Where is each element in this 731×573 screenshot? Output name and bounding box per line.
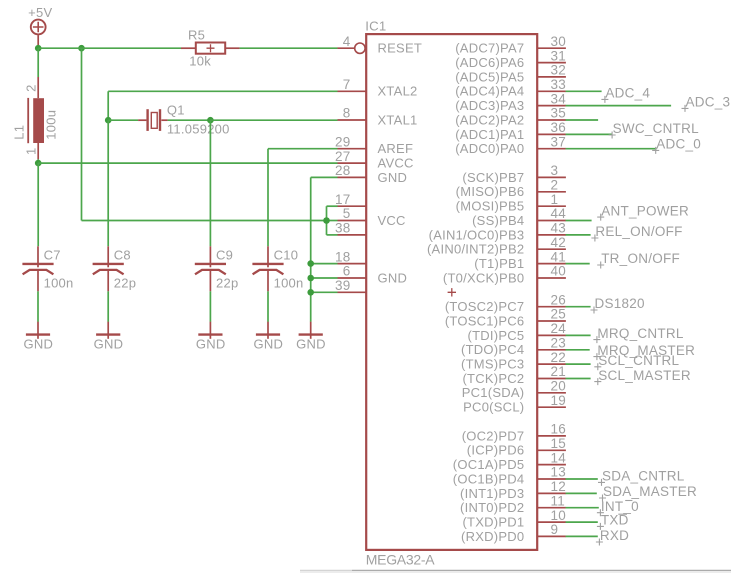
wire AVCC to IC1 pin 27 (38, 162, 337, 164)
svg-text:9: 9 (551, 522, 559, 537)
svg-text:(T1)PB1: (T1)PB1 (474, 256, 524, 271)
svg-text:2: 2 (551, 178, 559, 193)
IC1 origin cross (448, 288, 456, 296)
svg-text:12: 12 (551, 479, 567, 494)
svg-text:36: 36 (551, 120, 567, 135)
svg-text:3: 3 (551, 163, 559, 178)
wire GND bracket to pin 39 (311, 291, 338, 293)
wire AREF vertical down to C10 (267, 149, 269, 247)
svg-text:MRQ_CNTRL: MRQ_CNTRL (597, 326, 683, 341)
svg-text:10: 10 (551, 508, 567, 523)
node INT_0 label (597, 499, 639, 516)
pin 33 (ADC4)PA4 (455, 77, 566, 99)
svg-text:IC1: IC1 (365, 18, 386, 33)
wire net unlabeled from pin row 5 (566, 119, 599, 121)
pin 21 (TCK)PC2 (462, 364, 566, 386)
svg-text:AVCC: AVCC (378, 156, 414, 171)
svg-text:19: 19 (551, 393, 567, 408)
svg-text:100n: 100n (274, 275, 304, 290)
svg-text:AREF: AREF (378, 141, 414, 156)
svg-text:PC0(SCL): PC0(SCL) (463, 400, 524, 415)
node TR_ON/OFF label (597, 251, 680, 268)
node TXD label (597, 513, 629, 530)
svg-text:GND: GND (23, 337, 53, 352)
junction XTAL2 / Q1 / C8 (105, 117, 112, 124)
svg-text:(ADC0)PA0: (ADC0)PA0 (455, 141, 524, 156)
wire net MRQ_MASTER from pin row 21 (566, 349, 590, 351)
wire VCC horizontal to IC1 (82, 220, 327, 222)
L1 pin 2 label (23, 84, 38, 91)
svg-text:(MOSI)PB5: (MOSI)PB5 (456, 199, 525, 214)
svg-text:SDA_CNTRL: SDA_CNTRL (602, 469, 685, 484)
svg-text:44: 44 (551, 206, 567, 221)
pin 25 (TOSC1)PC6 (445, 307, 566, 329)
wire net ADC_4 from pin row 3 (566, 90, 602, 92)
svg-text:(MISO)PB6: (MISO)PB6 (456, 184, 525, 199)
svg-text:MEGA32-A: MEGA32-A (366, 552, 435, 568)
pin 38 IC1-left (335, 221, 366, 236)
svg-text:GND: GND (378, 270, 408, 285)
svg-text:18: 18 (335, 249, 351, 264)
junction VCC branch on +5V rail (78, 45, 85, 52)
svg-text:(OC2)PD7: (OC2)PD7 (462, 428, 525, 443)
svg-text:27: 27 (335, 149, 351, 164)
junction GND bracket pin 6 (307, 275, 314, 282)
pin 40 (T0/XCK)PB0 (443, 264, 566, 286)
svg-text:8: 8 (343, 106, 351, 121)
svg-text:(TOSC1)PC6: (TOSC1)PC6 (445, 313, 525, 328)
pin 42 (AIN0/INT2)PB2 (427, 235, 566, 257)
node RXD label (596, 528, 629, 545)
svg-text:C10: C10 (274, 248, 299, 263)
pin 13 (OC1B)PD4 (453, 465, 566, 487)
node MRQ_CNTRL label (593, 326, 683, 343)
wire net SDA_CNTRL from pin row 30 (566, 478, 598, 480)
svg-text:26: 26 (551, 292, 567, 307)
pin 39 IC1-left (335, 278, 366, 293)
svg-text:(TOSC2)PC7: (TOSC2)PC7 (445, 299, 525, 314)
wire GND bracket vertical (310, 177, 312, 322)
svg-text:(TCK)PC2: (TCK)PC2 (462, 371, 524, 386)
pin 32 (ADC5)PA5 (455, 63, 566, 85)
wire VCC vertical drop at x=81.5 (81, 48, 83, 220)
svg-text:22: 22 (551, 350, 567, 365)
svg-text:GND: GND (94, 337, 124, 352)
node SDA_MASTER label (599, 484, 697, 501)
pin 7 XTAL2 (338, 77, 418, 99)
svg-text:(ADC6)PA6: (ADC6)PA6 (455, 55, 524, 70)
junction VCC bracket pin 5 (323, 217, 330, 224)
svg-text:32: 32 (551, 63, 567, 78)
junction GND bracket pin 39 (307, 289, 314, 296)
pin 12 (INT1)PD3 (460, 479, 566, 501)
svg-text:(ADC7)PA7: (ADC7)PA7 (455, 41, 524, 56)
wire capacitor C8 to ground (107, 291, 109, 322)
wire VCC bracket to pin 38 (327, 234, 338, 236)
svg-text:GND: GND (378, 170, 408, 185)
wire into capacitor capacitor C8 (107, 246, 109, 267)
wire net DS1820 from pin row 18 (566, 306, 591, 308)
svg-text:(T0/XCK)PB0: (T0/XCK)PB0 (443, 270, 525, 285)
node ADC_3 label (682, 95, 731, 112)
pin 44 (SS)PB4 (472, 206, 566, 228)
svg-text:23: 23 (551, 336, 567, 351)
svg-text:(TDI)PC5: (TDI)PC5 (468, 328, 525, 343)
pin 8 XTAL1 (338, 106, 418, 128)
svg-text:16: 16 (551, 422, 567, 437)
svg-text:4: 4 (343, 34, 351, 49)
junction L1 / AVCC / C7 (35, 160, 42, 167)
pin 36 (ADC1)PA1 (455, 120, 566, 142)
svg-text:(ADC2)PA2: (ADC2)PA2 (455, 112, 524, 127)
pin 31 (ADC6)PA6 (455, 48, 566, 70)
wire GND bracket to pin 6 (311, 277, 338, 279)
svg-text:R5: R5 (188, 27, 205, 42)
svg-text:SDA_MASTER: SDA_MASTER (603, 484, 697, 499)
wire into capacitor capacitor C9 (209, 246, 211, 267)
svg-text:(SCK)PB7: (SCK)PB7 (462, 170, 524, 185)
node ADC_0 label (652, 137, 701, 154)
pin 43 (AIN1/OC0)PB3 (429, 221, 566, 243)
L1 name label (12, 125, 27, 140)
junction GND bracket pin 18 (307, 260, 314, 267)
resistor R5 (181, 43, 240, 54)
svg-text:C9: C9 (216, 248, 233, 263)
svg-text:24: 24 (551, 321, 567, 336)
svg-text:31: 31 (551, 48, 567, 63)
capacitor capacitor C10 (252, 264, 283, 291)
pin 5 VCC (338, 206, 406, 228)
wire XTAL1 to pin 8 (210, 119, 337, 121)
wire capacitor C7 to ground (37, 291, 39, 322)
junction +5V / L1 / rail (35, 45, 42, 52)
svg-text:+5V: +5V (28, 5, 52, 20)
svg-text:(ADC5)PA5: (ADC5)PA5 (455, 69, 524, 84)
ground under C7 (23, 322, 53, 352)
svg-text:(OC1B)PD4: (OC1B)PD4 (453, 471, 525, 486)
node SCL_CNTRL label (594, 353, 679, 370)
wire AVCC junction down to C7 (37, 163, 39, 246)
svg-text:ADC_4: ADC_4 (605, 86, 650, 101)
svg-text:GND: GND (253, 337, 283, 352)
pin 1 (MOSI)PB5 (456, 192, 566, 214)
wire +5V rail to R5 (38, 47, 181, 49)
node DS1820 label (591, 296, 645, 313)
svg-text:Q1: Q1 (167, 102, 185, 117)
ground under C10 (253, 322, 283, 352)
ground under GND bracket (296, 322, 326, 352)
pin 14 (OC1A)PD5 (453, 450, 566, 472)
wire capacitor C10 to ground (267, 291, 269, 322)
crystal Q1 (138, 109, 168, 131)
svg-text:XTAL1: XTAL1 (378, 112, 418, 127)
pin 24 (TDI)PC5 (468, 321, 567, 343)
wire net ANT_POWER from pin row 12 (566, 220, 592, 222)
svg-text:(ADC3)PA3: (ADC3)PA3 (455, 98, 524, 113)
svg-text:11.059200: 11.059200 (167, 121, 230, 136)
svg-text:14: 14 (551, 450, 567, 465)
svg-text:XTAL2: XTAL2 (378, 84, 418, 99)
pin 20 PC1(SDA) (462, 379, 566, 401)
svg-text:REL_ON/OFF: REL_ON/OFF (595, 224, 682, 239)
wire VCC bracket to pin 17 (327, 205, 338, 207)
svg-text:20: 20 (551, 379, 567, 394)
wire XTAL2 junction down to C8 (107, 120, 109, 246)
svg-text:(AIN0/INT2)PB2: (AIN0/INT2)PB2 (427, 242, 524, 257)
pin 23 (TDO)PC4 (461, 336, 566, 358)
svg-text:(ADC4)PA4: (ADC4)PA4 (455, 84, 524, 99)
svg-text:C8: C8 (114, 248, 131, 263)
capacitor capacitor C8 (93, 264, 124, 291)
L1 pin 1 label (23, 148, 38, 155)
svg-text:(INT1)PD3: (INT1)PD3 (460, 486, 524, 501)
svg-text:ANT_POWER: ANT_POWER (601, 203, 689, 218)
svg-text:GND: GND (196, 337, 226, 352)
svg-text:42: 42 (551, 235, 567, 250)
pin 30 (ADC7)PA7 (455, 34, 566, 56)
ground under C9 (196, 322, 226, 352)
wire into capacitor capacitor C7 (37, 246, 39, 267)
wire net TXD from pin row 33 (566, 521, 598, 523)
wire XTAL2 from pin 7 (108, 90, 337, 92)
svg-text:2: 2 (23, 84, 38, 91)
wire net ADC_3 from pin row 4 (566, 105, 672, 107)
capacitor capacitor C9 (195, 264, 226, 291)
+5V supply symbol (28, 5, 52, 48)
wire L1 to AVCC junction (37, 159, 39, 163)
node SCL_MASTER label (594, 368, 691, 385)
svg-text:35: 35 (551, 106, 567, 121)
node SDA_CNTRL label (598, 469, 685, 486)
wire net ADC_0 from pin row 7 (566, 148, 657, 150)
wire net TR_ON/OFF from pin row 15 (566, 263, 590, 265)
svg-text:DS1820: DS1820 (595, 296, 645, 311)
pin 2 (MISO)PB6 (456, 178, 566, 200)
wire net RXD from pin row 34 (566, 535, 598, 537)
wire GND bracket to pin 18 (311, 263, 338, 265)
pin 6 GND (338, 264, 408, 286)
svg-text:40: 40 (551, 264, 567, 279)
pin 34 (ADC3)PA3 (455, 91, 566, 113)
pin 16 (OC2)PD7 (462, 422, 566, 444)
svg-text:SWC_CNTRL: SWC_CNTRL (613, 121, 699, 136)
pin 35 (ADC2)PA2 (455, 106, 566, 128)
pin 15 (ICP)PD6 (467, 436, 566, 458)
svg-text:17: 17 (335, 192, 351, 207)
wire GND from pin 28 (311, 176, 338, 178)
svg-text:11: 11 (551, 493, 566, 508)
wire VCC bracket to pin 5 (327, 220, 338, 222)
pin 11 (INT0)PD2 (460, 493, 566, 515)
svg-text:RESET: RESET (378, 41, 423, 56)
L1 value label 100u (43, 110, 58, 140)
wire net SCL_CNTRL from pin row 22 (566, 363, 591, 365)
node SWC_CNTRL label (609, 121, 699, 138)
svg-text:(OC1A)PD5: (OC1A)PD5 (453, 457, 525, 472)
svg-text:SCL_CNTRL: SCL_CNTRL (598, 353, 679, 368)
svg-text:100n: 100n (44, 275, 74, 290)
wire capacitor C9 to ground (209, 291, 211, 322)
node MRQ_MASTER label (593, 343, 695, 360)
wire XTAL2 vertical down to Q1 (107, 91, 109, 120)
svg-text:34: 34 (551, 91, 567, 106)
inductor L1 (28, 77, 44, 159)
svg-text:30: 30 (551, 34, 567, 49)
svg-text:1: 1 (551, 192, 559, 207)
wire Q1 right to XTAL1 junction (168, 119, 211, 121)
pin 18 IC1-left (335, 249, 366, 264)
pin 41 (T1)PB1 (474, 249, 566, 271)
node ANT_POWER label (597, 203, 689, 220)
pin 29 AREF (335, 134, 413, 156)
svg-text:10k: 10k (189, 54, 211, 69)
node REL_ON/OFF label (591, 224, 682, 241)
wire VCC bracket vertical pins 17/5/38 (326, 206, 328, 235)
wire junction to Q1 left (108, 119, 138, 121)
svg-text:33: 33 (551, 77, 567, 92)
svg-text:L1: L1 (12, 125, 27, 140)
svg-text:1: 1 (23, 148, 38, 155)
svg-text:39: 39 (335, 278, 351, 293)
svg-text:ADC_0: ADC_0 (656, 137, 701, 152)
svg-text:38: 38 (335, 221, 351, 236)
svg-text:(TDO)PC4: (TDO)PC4 (461, 342, 524, 357)
svg-text:29: 29 (335, 134, 351, 149)
svg-text:5: 5 (343, 206, 351, 221)
wire +5V into L1 (37, 48, 39, 77)
svg-text:7: 7 (343, 77, 351, 92)
svg-text:21: 21 (551, 364, 567, 379)
pin 37 (ADC0)PA0 (455, 134, 566, 156)
svg-text:PC1(SDA): PC1(SDA) (462, 385, 525, 400)
wire net MRQ_CNTRL from pin row 20 (566, 334, 591, 336)
svg-text:25: 25 (551, 307, 567, 322)
pin 28 GND (335, 163, 407, 185)
svg-text:C7: C7 (44, 248, 61, 263)
svg-text:22p: 22p (114, 275, 136, 290)
svg-text:SCL_MASTER: SCL_MASTER (598, 368, 691, 383)
wire XTAL1 junction down to C9 (209, 120, 211, 246)
pin 19 PC0(SCL) (463, 393, 566, 415)
op-amp U1 : microcontroller IC1 MEGA32-A box (366, 34, 537, 550)
svg-text:37: 37 (551, 134, 567, 149)
pin 26 (TOSC2)PC7 (445, 292, 566, 314)
svg-text:TXD: TXD (601, 513, 629, 528)
svg-text:15: 15 (551, 436, 567, 451)
pin 27 AVCC (335, 149, 414, 171)
svg-text:GND: GND (296, 337, 326, 352)
wire net REL_ON/OFF from pin row 13 (566, 234, 591, 236)
svg-text:(RXD)PD0: (RXD)PD0 (461, 529, 524, 544)
pin 17 IC1-left (335, 192, 366, 207)
junction XTAL1 / Q1 / C9 (207, 117, 214, 124)
svg-text:(ICP)PD6: (ICP)PD6 (467, 443, 525, 458)
svg-text:6: 6 (343, 264, 351, 279)
svg-text:100u: 100u (43, 110, 58, 140)
svg-text:RXD: RXD (600, 528, 629, 543)
svg-text:43: 43 (551, 221, 567, 236)
svg-text:28: 28 (335, 163, 351, 178)
wire R5 to IC1 RESET pin 4 (240, 47, 338, 49)
svg-text:(AIN1/OC0)PB3: (AIN1/OC0)PB3 (429, 227, 525, 242)
svg-text:(ADC1)PA1: (ADC1)PA1 (455, 127, 524, 142)
pin 22 (TMS)PC3 (461, 350, 566, 372)
wire net INT_0 from pin row 32 (566, 507, 599, 509)
pin 9 (RXD)PD0 (461, 522, 566, 544)
svg-text:41: 41 (551, 249, 567, 264)
svg-text:TR_ON/OFF: TR_ON/OFF (601, 251, 680, 266)
wire net SCL_MASTER from pin row 23 (566, 378, 591, 380)
svg-text:(TXD)PD1: (TXD)PD1 (462, 515, 524, 530)
svg-text:(TMS)PC3: (TMS)PC3 (461, 357, 524, 372)
capacitor capacitor C7 (22, 264, 53, 291)
pin 4 RESET (337, 34, 422, 56)
svg-text:(INT0)PD2: (INT0)PD2 (460, 500, 524, 515)
node ADC_4 label (601, 86, 650, 103)
ground under C8 (94, 322, 124, 352)
wire into capacitor capacitor C10 (267, 246, 269, 267)
svg-text:13: 13 (551, 465, 567, 480)
wire net SDA_MASTER from pin row 31 (566, 492, 597, 494)
pin 3 (SCK)PB7 (462, 163, 565, 185)
svg-text:VCC: VCC (378, 213, 406, 228)
wire net SWC_CNTRL from pin row 6 (566, 133, 613, 135)
svg-text:(SS)PB4: (SS)PB4 (472, 213, 524, 228)
svg-text:ADC_3: ADC_3 (686, 95, 731, 110)
scrollbar edge at bottom (300, 570, 731, 573)
pin 10 (TXD)PD1 (462, 508, 566, 530)
svg-text:22p: 22p (216, 275, 238, 290)
wire AREF from pin 29 (268, 148, 338, 150)
